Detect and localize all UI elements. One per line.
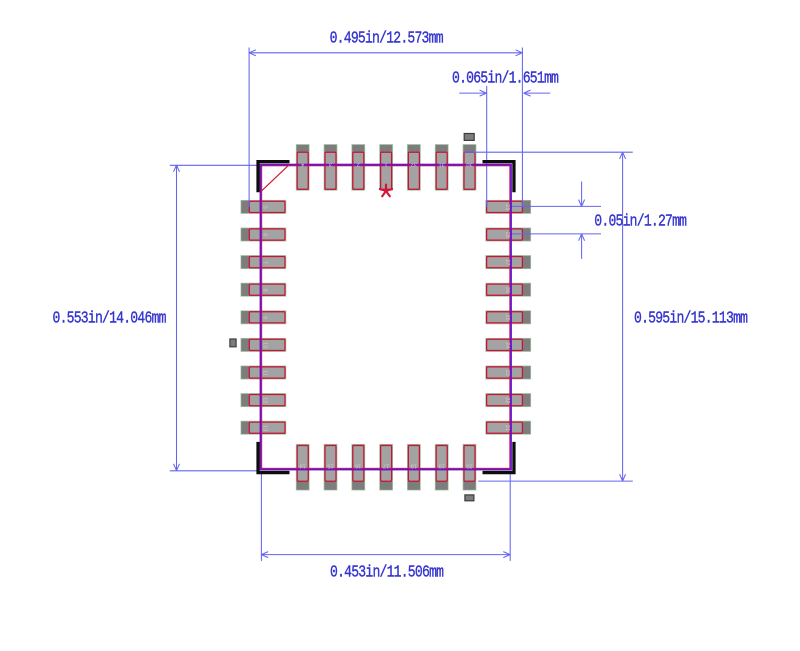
svg-text:14: 14	[300, 463, 306, 469]
svg-text:13: 13	[262, 425, 268, 431]
svg-text:10: 10	[262, 342, 268, 348]
svg-text:11: 11	[262, 370, 268, 376]
svg-text:8: 8	[262, 288, 268, 291]
svg-text:16: 16	[355, 463, 361, 469]
svg-text:31: 31	[439, 161, 445, 167]
svg-text:26: 26	[504, 287, 510, 293]
svg-text:0.553in/14.046mm: 0.553in/14.046mm	[53, 308, 167, 328]
svg-text:6: 6	[262, 233, 268, 236]
svg-text:23: 23	[504, 370, 510, 376]
svg-text:24: 24	[504, 342, 510, 348]
svg-text:19: 19	[439, 463, 445, 469]
svg-text:12: 12	[262, 397, 268, 403]
svg-text:17: 17	[383, 463, 389, 469]
svg-text:28: 28	[504, 232, 510, 238]
svg-text:21: 21	[504, 425, 510, 431]
svg-text:3: 3	[329, 161, 332, 167]
svg-text:30: 30	[466, 161, 472, 167]
svg-text:22: 22	[504, 397, 510, 403]
svg-text:4: 4	[301, 161, 304, 167]
svg-text:0.595in/15.113mm: 0.595in/15.113mm	[634, 308, 748, 328]
svg-text:5: 5	[262, 206, 268, 209]
svg-text:7: 7	[262, 261, 268, 264]
svg-text:20: 20	[466, 463, 472, 469]
svg-text:9: 9	[262, 316, 268, 319]
svg-text:25: 25	[504, 314, 510, 320]
svg-text:18: 18	[411, 463, 417, 469]
svg-text:0.05in/1.27mm: 0.05in/1.27mm	[594, 211, 687, 231]
svg-text:27: 27	[504, 259, 510, 265]
svg-text:2: 2	[357, 161, 360, 167]
svg-text:0.495in/12.573mm: 0.495in/12.573mm	[330, 28, 444, 48]
svg-text:29: 29	[504, 204, 510, 210]
svg-text:15: 15	[327, 463, 333, 469]
svg-text:0.453in/11.506mm: 0.453in/11.506mm	[330, 562, 444, 582]
svg-text:0.065in/1.651mm: 0.065in/1.651mm	[452, 68, 559, 88]
svg-text:1: 1	[385, 161, 388, 167]
svg-text:32: 32	[411, 161, 417, 167]
